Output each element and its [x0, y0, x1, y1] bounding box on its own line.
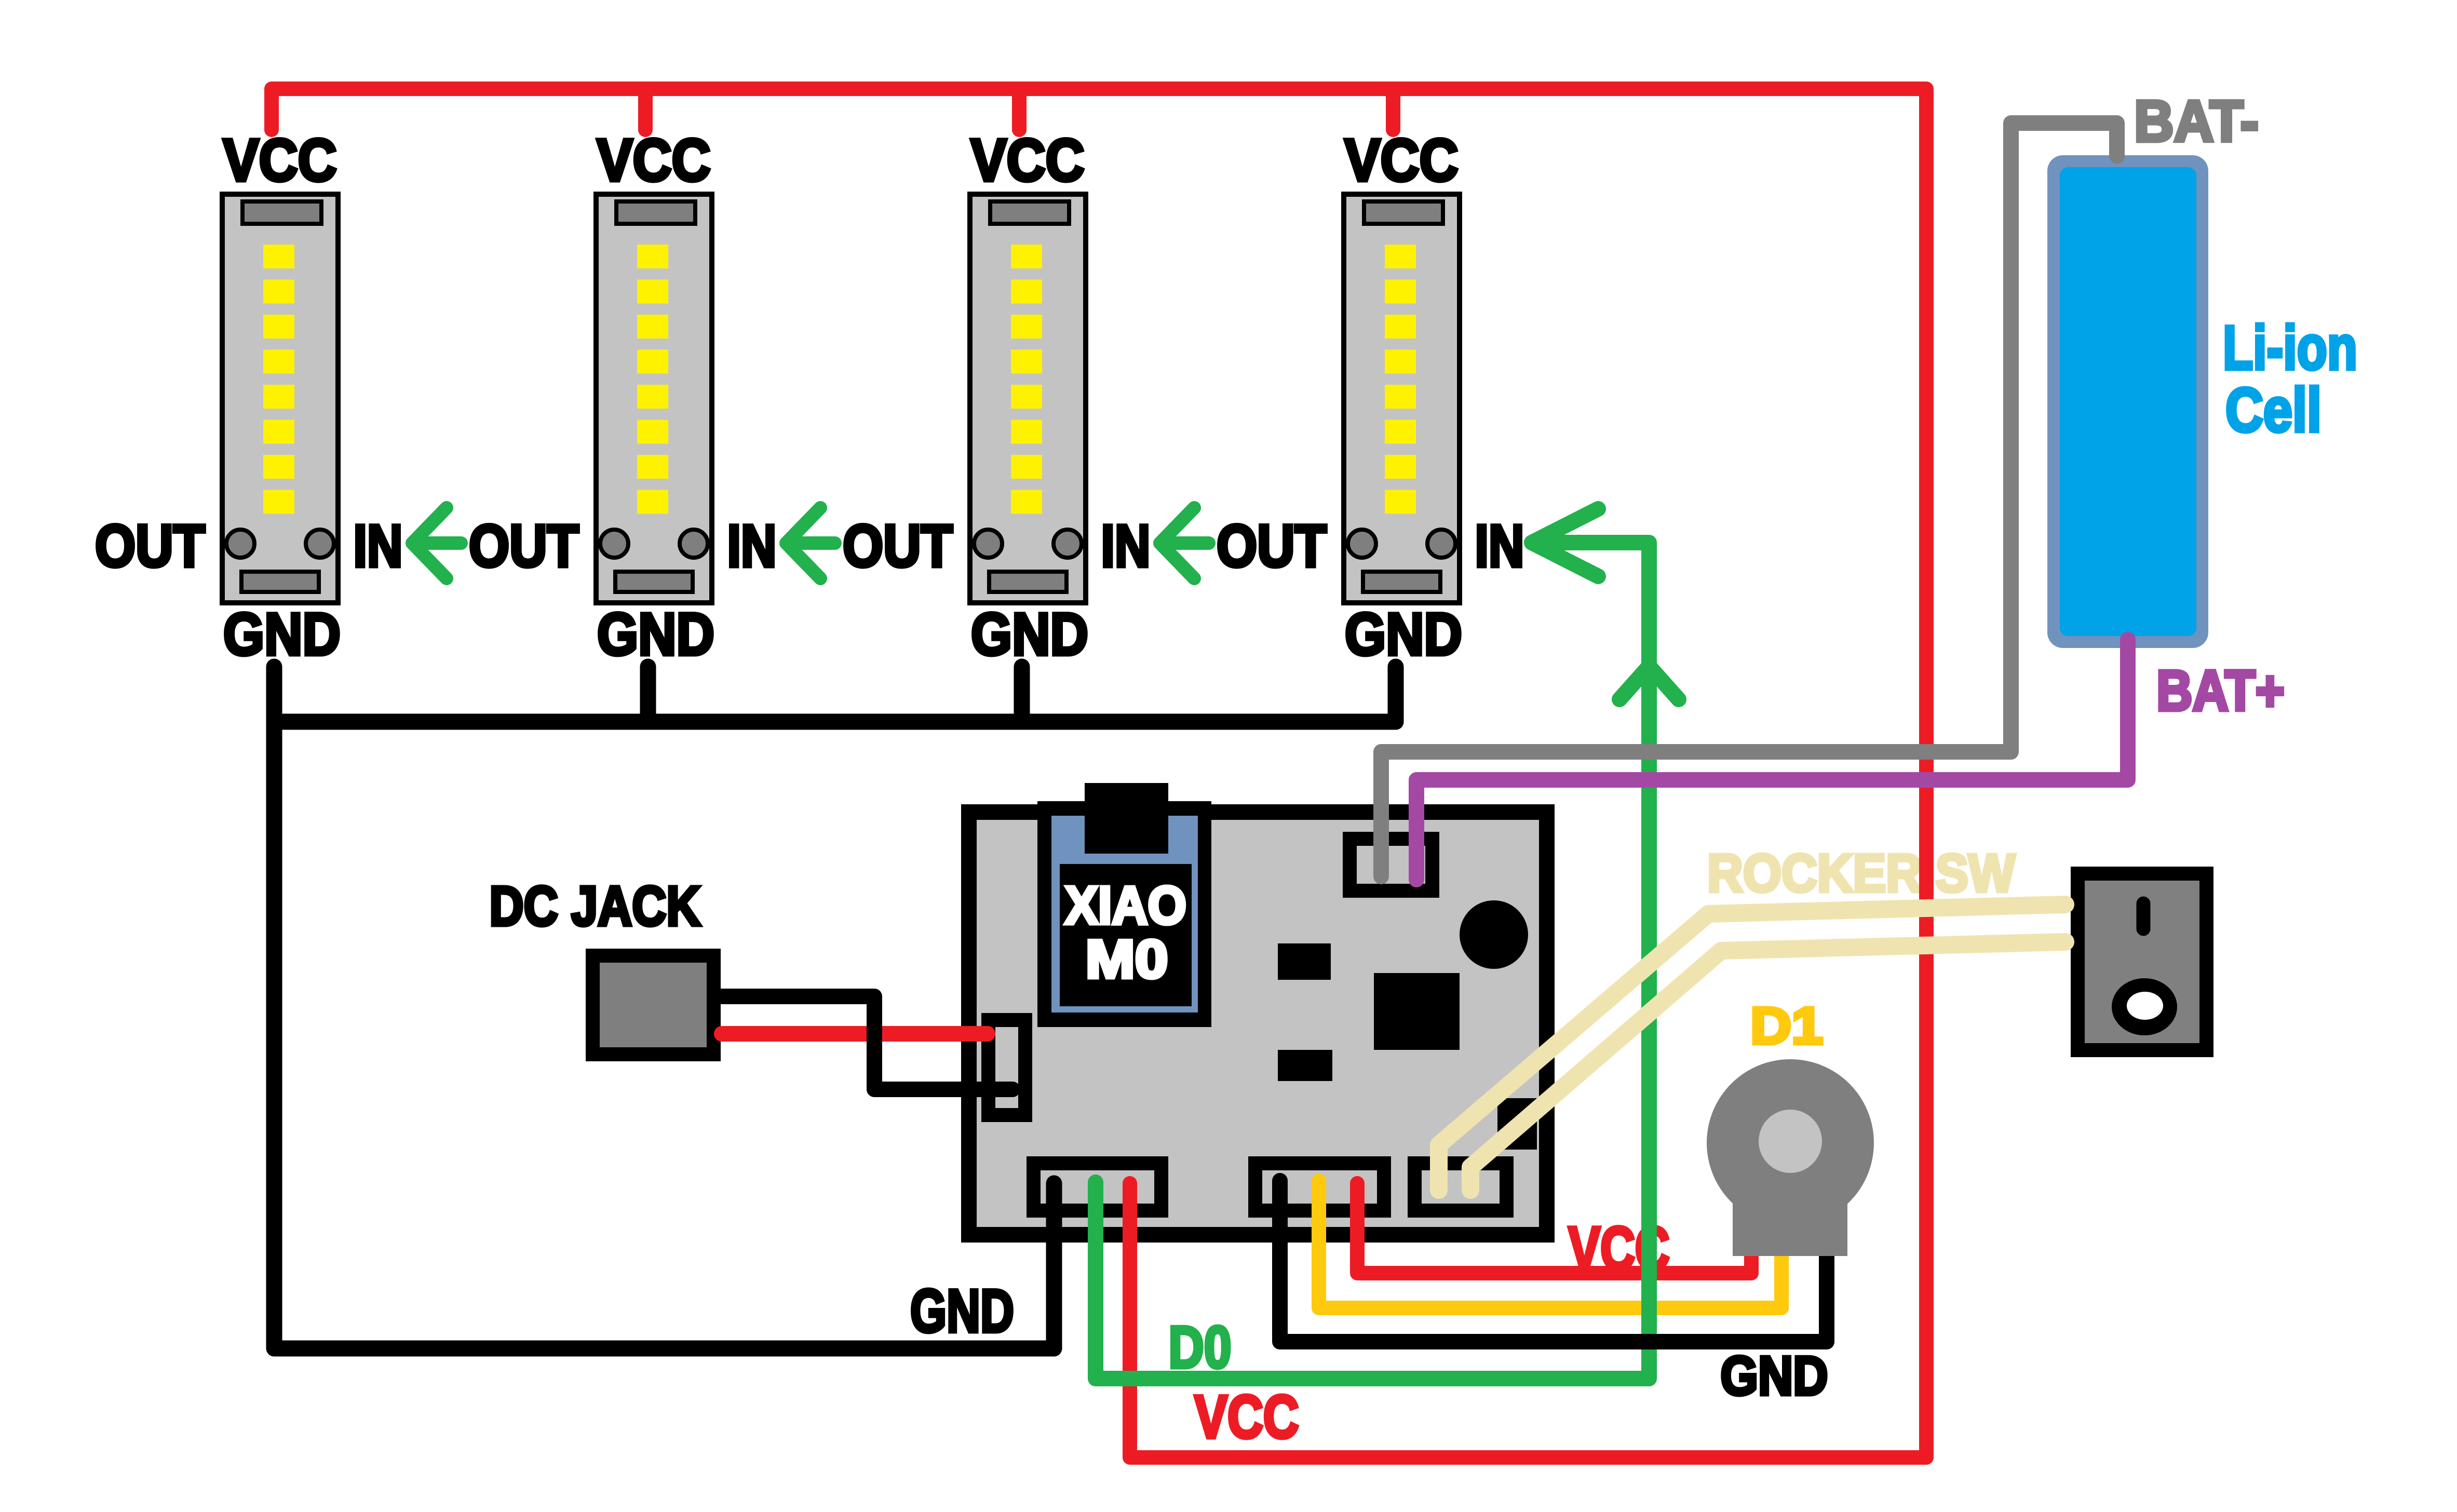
svg-text:D0: D0 [1169, 1315, 1232, 1381]
svg-text:VCC: VCC [597, 127, 711, 194]
svg-text:GND: GND [910, 1277, 1014, 1345]
svg-text:BAT-: BAT- [2134, 89, 2259, 154]
svg-text:IN: IN [1101, 513, 1151, 579]
svg-text:IN: IN [354, 513, 403, 579]
svg-text:M0: M0 [1086, 929, 1168, 990]
svg-text:GND: GND [1345, 601, 1462, 668]
svg-text:IN: IN [1475, 513, 1524, 579]
svg-text:ROCKER SW: ROCKER SW [1707, 843, 2016, 903]
svg-text:OUT: OUT [469, 513, 579, 579]
svg-text:Cell: Cell [2225, 375, 2321, 445]
svg-text:GND: GND [971, 601, 1088, 668]
svg-text:GND: GND [597, 601, 714, 668]
svg-text:GND: GND [1721, 1345, 1828, 1407]
svg-text:VCC: VCC [1345, 127, 1459, 194]
svg-text:VCC: VCC [1195, 1383, 1299, 1451]
svg-text:OUT: OUT [843, 513, 953, 579]
svg-text:OUT: OUT [95, 513, 205, 579]
svg-text:DC JACK: DC JACK [490, 874, 701, 937]
svg-text:Li-ion: Li-ion [2223, 313, 2357, 383]
svg-text:GND: GND [223, 601, 341, 668]
svg-text:VCC: VCC [223, 127, 337, 194]
svg-text:IN: IN [727, 513, 777, 579]
svg-text:XIAO: XIAO [1065, 875, 1186, 935]
svg-text:OUT: OUT [1217, 513, 1327, 579]
svg-text:BAT+: BAT+ [2156, 659, 2285, 723]
svg-text:VCC: VCC [971, 127, 1085, 194]
svg-text:D1: D1 [1750, 997, 1823, 1055]
